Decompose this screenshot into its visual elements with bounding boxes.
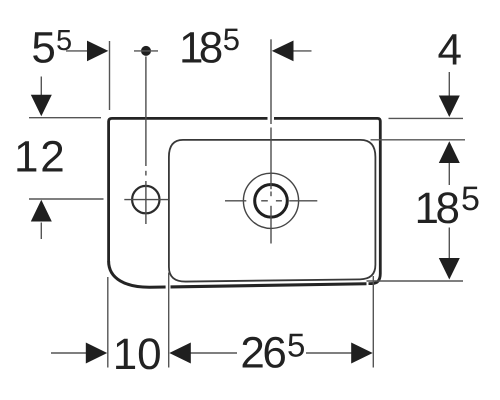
extension line bottom left (basin left edge) [51, 273, 373, 368]
dimension 18.5 right stem upper [448, 163, 450, 185]
arrow 4 pointing down [439, 96, 460, 118]
dimension dot at 18.5 left end [141, 46, 151, 56]
dimension 12 stem lower [40, 223, 42, 240]
extension line basin left edge upward [109, 41, 111, 110]
extension line inner basin bottom right [367, 280, 464, 282]
extension line inner basin top right [371, 139, 466, 141]
svg-text:4: 4 [438, 26, 462, 75]
dimension line at fixing hole height [29, 198, 104, 200]
extension line basin top edge left [29, 77, 104, 240]
arrow 18.5 right pointing down [439, 258, 460, 280]
svg-text:5: 5 [31, 24, 55, 73]
svg-text:1: 1 [113, 330, 137, 379]
dimension 4 stem [367, 72, 466, 281]
outer basin outline left+top [109, 118, 381, 283]
arrow 5.5 pointing right [87, 41, 108, 62]
svg-text:5: 5 [223, 22, 240, 57]
extension line basin top edge right [389, 117, 464, 119]
svg-text:6: 6 [262, 329, 286, 378]
svg-text:5: 5 [56, 25, 72, 57]
dimension 26.5 line left segment [190, 352, 237, 354]
arrow 26.5 pointing right [351, 343, 373, 364]
svg-text:2: 2 [240, 329, 264, 378]
svg-text:2: 2 [40, 133, 64, 182]
tap hole centerline vertical [225, 39, 317, 243]
svg-text:1: 1 [14, 133, 38, 182]
dimension 12 stem upper [40, 77, 42, 96]
svg-text:5: 5 [461, 180, 480, 218]
fixing hole centerline horizontal [124, 57, 168, 225]
fixing hole circle [132, 186, 159, 213]
dimension 26.5 line right segment [306, 352, 352, 354]
dimension 18.5 right stem lower [448, 228, 450, 259]
dimension 18.5 stub at dot [134, 50, 158, 52]
outer basin bottom edge [171, 284, 367, 287]
tap hole centerline horizontal [225, 200, 246, 202]
arrow 12 pointing down [31, 95, 52, 117]
dimension 18.5 tail right of arrow [293, 50, 312, 52]
extension line bottom inner-left [168, 273, 170, 368]
outer basin outline top-right + right + bottom-right [274, 118, 380, 283]
arrow 18.5 right pointing up [439, 141, 460, 163]
tap hole outer circle [243, 173, 298, 228]
outer basin bottom-left curve [109, 261, 166, 287]
inner basin outline [169, 140, 376, 282]
arrow 10 pointing right [86, 343, 107, 364]
svg-text:5: 5 [287, 327, 305, 364]
dimension 10 tail left of arrow [51, 352, 86, 354]
dimension 5.5 leader line [66, 41, 312, 110]
svg-text:8: 8 [199, 24, 223, 73]
extension line bottom right [372, 276, 374, 368]
svg-text:8: 8 [436, 184, 460, 233]
arrow 12 pointing up [31, 200, 52, 222]
tap hole inner circle [255, 185, 288, 218]
arrow 26.5 pointing left [169, 343, 191, 364]
svg-text:0: 0 [137, 330, 161, 379]
arrow 18.5 pointing left [272, 41, 294, 62]
fixing hole centerline vertical [145, 57, 147, 167]
